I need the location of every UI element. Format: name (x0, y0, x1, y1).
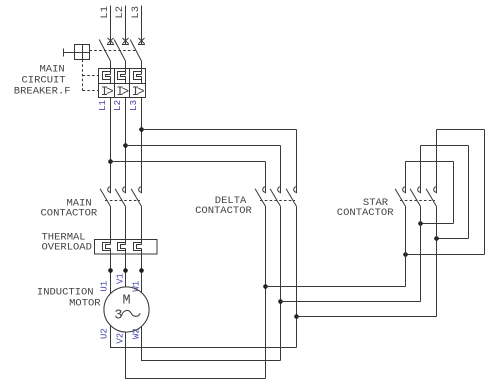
star contactor K3 pole 1 fixed contact (403, 187, 406, 193)
wire delta pole 3 bottom (296, 206, 298, 347)
svg-text:U2: U2 (100, 328, 110, 339)
breaker F dashed trip linkage vertical (82, 60, 84, 91)
wire motor V2 to delta pole1 bottom (126, 332, 266, 378)
svg-text:CONTACTOR: CONTACTOR (195, 205, 252, 217)
wire star loop L2 top (420, 146, 422, 194)
svg-text:I>: I> (132, 85, 144, 99)
star contactor K3 pole 2 fixed contact (418, 187, 421, 193)
motor AC sine symbol (122, 310, 141, 316)
junction motor lead W1 (139, 268, 144, 273)
delta contactor K2 pole 3 blade (286, 189, 296, 207)
wire star loop leg 2 to pole3 bottom junction (468, 146, 470, 239)
wire breaker pole L2 into release box (125, 61, 127, 69)
wire main contactor pole 2 to overload (125, 206, 127, 239)
delta contactor K2 pole 3 fixed contact (294, 187, 297, 193)
wire motor U2 to delta pole3 bottom (111, 326, 297, 348)
wire star pole 1 bottom drop (405, 206, 407, 286)
wire delta pole 1 junction to star pole 1 bottom (266, 286, 406, 288)
main contactor K1 linkage dashed line (105, 200, 140, 202)
breaker F release box column dividers (114, 69, 116, 98)
wire motor W2 to delta pole2 bottom (142, 326, 281, 360)
svg-text:W2: W2 (132, 328, 142, 339)
breaker F release box outline (99, 69, 146, 98)
svg-text:BREAKER.F: BREAKER.F (14, 85, 71, 97)
breaker F linkage dashed line to blades (90, 50, 137, 52)
breaker F pole L2 fixed contact x-mark (123, 38, 129, 44)
thermal overload element pole 2 (125, 240, 127, 245)
svg-text:L3: L3 (129, 100, 139, 111)
main contactor K1 pole 3 fixed contact (139, 187, 142, 193)
delta contactor K2 linkage dashed line (260, 200, 295, 202)
wire breaker pole L1 into release box (110, 61, 112, 69)
thermal overload element pole 3 (141, 240, 143, 245)
wire overload to motor terminal U1 (110, 254, 112, 294)
delta contactor K2 pole 1 blade (255, 189, 265, 207)
thermal overload relay box (95, 240, 158, 255)
svg-text:CONTACTOR: CONTACTOR (41, 207, 98, 219)
wire branch L1 to delta contactor pole (111, 161, 266, 163)
wire breaker pole L3 into release box (141, 61, 143, 69)
wire supply L1 incoming (110, 6, 112, 45)
breaker F dashed link to thermal row (83, 75, 99, 77)
wire star pole 3 bottom drop (436, 206, 438, 316)
svg-text:MOTOR: MOTOR (69, 297, 101, 309)
junction delta pole 2 to star pole 2 (278, 299, 283, 304)
junction motor lead V1 (123, 268, 128, 273)
breaker F pole L3 blade (130, 40, 141, 62)
svg-text:V1: V1 (115, 273, 125, 284)
svg-text:L3: L3 (130, 6, 142, 19)
wire feeder L3 breaker to main contactor (141, 98, 143, 194)
breaker F dashed link to magnetic row (83, 90, 99, 92)
breaker F pole L1 fixed contact x-mark (108, 38, 114, 44)
wire feeder L1 breaker to main contactor (110, 98, 112, 194)
star contactor K3 pole 3 blade (426, 189, 436, 207)
svg-text:L2: L2 (114, 6, 126, 19)
svg-text:OVERLOAD: OVERLOAD (42, 242, 92, 254)
svg-text:L1: L1 (99, 6, 111, 19)
wire star loop L3 top (436, 130, 438, 194)
wire feeder L2 breaker to main contactor (125, 98, 127, 194)
breaker F pole L1 blade (99, 40, 110, 62)
breaker F handle lead and terminal (64, 52, 75, 54)
junction L2 branch to delta contactor (123, 143, 128, 148)
main contactor K1 pole 1 fixed contact (108, 187, 111, 193)
wire star loop leg 3 to pole1 bottom junction (484, 130, 486, 255)
svg-text:CONTACTOR: CONTACTOR (337, 207, 394, 219)
junction motor lead U1 (108, 268, 113, 273)
svg-text:W1: W1 (132, 281, 142, 292)
wire delta pole 3 junction to star pole 3 bottom (297, 316, 437, 318)
junction star pole1 bottom (403, 252, 408, 257)
breaker F pole L1 thermal release element (110, 69, 112, 75)
wire delta pole 1 bottom (265, 206, 267, 378)
wire overload to motor terminal V1 (125, 254, 127, 287)
breaker F pole L2 thermal release element (125, 69, 127, 75)
wire star loop L1 top (405, 162, 407, 194)
wire branch L2 to delta contactor pole (126, 145, 281, 147)
breaker F pole L2 blade (114, 40, 125, 62)
main contactor K1 pole 2 blade (115, 189, 125, 207)
star contactor K3 pole 3 fixed contact (434, 187, 437, 193)
induction motor M circle (104, 287, 149, 332)
wire main contactor pole 1 to overload (110, 206, 112, 239)
svg-text:L1: L1 (98, 100, 108, 111)
junction star pole2 bottom (418, 221, 423, 226)
breaker F pole L3 contact bar (138, 44, 145, 46)
svg-text:I>: I> (116, 85, 128, 99)
main contactor K1 pole 3 blade (131, 189, 141, 207)
wire supply L2 incoming (125, 6, 127, 45)
breaker F pole L2 contact bar (122, 44, 129, 46)
breaker F pole L1 contact bar (107, 44, 114, 46)
junction L1 branch to delta contactor (108, 159, 113, 164)
breaker F pole L3 thermal release element (141, 69, 143, 75)
breaker F release box row divider (99, 83, 146, 85)
breaker F pole L3 fixed contact x-mark (139, 38, 145, 44)
thermal overload element pole 1 (110, 240, 112, 245)
star contactor K3 pole 1 blade (395, 189, 405, 207)
star contactor K3 linkage dashed line (400, 200, 435, 202)
svg-text:L2: L2 (113, 100, 123, 111)
junction delta pole 1 to star pole 1 (263, 284, 268, 289)
svg-text:U1: U1 (100, 281, 110, 292)
wire star loop leg 1 to pole2 bottom junction (453, 162, 455, 224)
delta contactor K2 pole 2 fixed contact (278, 187, 281, 193)
svg-text:M: M (122, 293, 130, 308)
wire main contactor pole 3 to overload (141, 206, 143, 239)
wire delta pole 2 bottom (280, 206, 282, 360)
wire branch L3 to delta contactor pole (142, 129, 297, 131)
main contactor K1 pole 1 blade (100, 189, 110, 207)
delta contactor K2 pole 1 fixed contact (263, 187, 266, 193)
svg-text:I>: I> (101, 85, 113, 99)
wire delta pole 2 junction to star pole 2 bottom (281, 301, 421, 303)
wire supply L3 incoming (141, 6, 143, 45)
breaker F operating mechanism box (75, 45, 90, 60)
junction L3 branch to delta contactor (139, 127, 144, 132)
star contactor K3 pole 2 blade (410, 189, 420, 207)
junction star pole3 bottom (434, 236, 439, 241)
svg-text:V2: V2 (115, 333, 125, 344)
wire star pole 2 bottom drop (420, 206, 422, 301)
delta contactor K2 pole 2 blade (270, 189, 280, 207)
junction delta pole 3 to star pole 3 (294, 314, 299, 319)
main contactor K1 pole 2 fixed contact (123, 187, 126, 193)
wire overload to motor terminal W1 (141, 254, 143, 293)
